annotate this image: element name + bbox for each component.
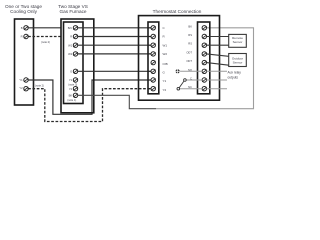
svg-text:Cooling Only: Cooling Only <box>10 9 37 14</box>
wire furnace W1 to thermostat W1 <box>78 44 151 46</box>
svg-text:O/B: O/B <box>163 62 168 66</box>
svg-text:R: R <box>21 35 23 39</box>
svg-text:Thermostat Connection: Thermostat Connection <box>153 9 202 14</box>
terminal RS upper (thermostat) <box>188 33 206 39</box>
terminal G (thermostat) <box>148 69 166 74</box>
terminal Y1 (cooling) <box>19 78 28 82</box>
svg-text:W1: W1 <box>163 43 168 47</box>
terminal ODT lower (thermostat) <box>186 59 206 65</box>
svg-text:ODT: ODT <box>186 59 192 63</box>
terminal Y1 (furnace) <box>69 78 78 82</box>
wire cooling R to furnace box (dashed, note 2) <box>28 36 61 38</box>
terminal BK (thermostat) <box>188 24 206 30</box>
svg-text:Sensor: Sensor <box>233 40 243 44</box>
wire furnace G to thermostat G <box>78 70 151 72</box>
terminal W1 (thermostat) <box>148 43 167 47</box>
svg-text:Gas Furnace: Gas Furnace <box>59 9 86 14</box>
terminal B/C (furnace) <box>68 26 78 30</box>
svg-text:Sensor: Sensor <box>233 61 243 65</box>
terminal NO (thermostat) <box>188 68 207 74</box>
thermostat outer box <box>139 16 220 101</box>
svg-text:Y1: Y1 <box>69 78 73 82</box>
terminal Y2 (furnace) <box>69 87 78 91</box>
svg-text:B: B <box>21 26 23 30</box>
cooling unit box <box>15 19 34 105</box>
terminal ODT upper (thermostat) <box>186 50 206 56</box>
wire furnace W2 to thermostat W2 <box>78 53 151 55</box>
svg-text:outputs: outputs <box>228 76 239 80</box>
furnace outer box <box>61 19 94 113</box>
terminal C aux (thermostat) <box>190 77 207 83</box>
svg-text:ODT: ODT <box>186 50 192 54</box>
svg-text:Y2: Y2 <box>19 86 23 90</box>
relay switch: C contact circle <box>184 79 203 82</box>
splice node on NO wire <box>175 69 202 74</box>
svg-text:W2: W2 <box>68 52 73 56</box>
svg-text:Y1: Y1 <box>19 78 23 82</box>
terminal B (cooling) <box>21 26 29 30</box>
svg-text:Y2: Y2 <box>163 88 167 92</box>
svg-text:(note 2): (note 2) <box>41 40 50 44</box>
relay switch arm <box>179 81 184 88</box>
thermostat left terminal strip <box>148 22 159 94</box>
wire C aux output <box>206 79 227 81</box>
svg-text:W2: W2 <box>163 52 168 56</box>
svg-text:BK: BK <box>188 24 192 28</box>
terminal R (furnace) <box>70 34 78 38</box>
wire furnace B/C to thermostat C <box>78 27 151 29</box>
svg-text:RS: RS <box>188 42 192 46</box>
remote sensor box <box>229 34 247 47</box>
svg-text:G: G <box>70 69 72 73</box>
terminal R (cooling) <box>21 34 29 38</box>
terminal R (thermostat) <box>148 34 166 38</box>
terminal C (thermostat) <box>148 26 166 30</box>
wire ODT lower to outdoor sensor <box>207 63 229 66</box>
relay switch: NC contact circle <box>177 87 202 90</box>
wire furnace BK to thermostat BK (routed around bottom) <box>78 95 156 108</box>
svg-text:Y1: Y1 <box>163 79 167 83</box>
terminal O/B (thermostat) <box>151 60 168 65</box>
svg-text:RS: RS <box>188 33 192 37</box>
terminal NC (thermostat) <box>188 85 207 91</box>
terminal Y1 (thermostat) <box>148 78 167 83</box>
svg-text:Y2: Y2 <box>69 87 73 91</box>
wire RS upper to remote sensor <box>206 36 228 38</box>
wire cooling Y2 to thermostat Y2 (dashed, routed along bottom) <box>28 89 151 122</box>
svg-text:Aux relay: Aux relay <box>228 71 242 75</box>
heading: Two Stage VS Gas Furnace <box>58 4 88 14</box>
svg-text:(note 2): (note 2) <box>35 83 44 87</box>
thermostat right terminal strip <box>198 22 210 94</box>
svg-text:(note 1): (note 1) <box>67 98 76 102</box>
wire RS lower to remote sensor <box>206 44 228 46</box>
svg-text:W1: W1 <box>68 43 73 47</box>
heading: One or Two stage Cooling Only <box>5 4 42 14</box>
terminal Y2 (cooling) <box>19 86 28 91</box>
wire cooling B to furnace box <box>28 27 61 29</box>
terminal W2 (thermostat) <box>148 52 167 56</box>
label aux relay outputs <box>228 71 242 80</box>
wire NC aux output <box>206 88 227 90</box>
svg-text:Outdoor: Outdoor <box>232 56 243 60</box>
wire cooling Y1 to thermostat Y1 (routed under furnace) <box>28 80 151 114</box>
wire furnace R to thermostat R <box>78 36 151 38</box>
terminal G (furnace) <box>70 69 78 73</box>
svg-text:BK: BK <box>69 93 73 97</box>
wire ODT upper to outdoor sensor <box>207 54 229 56</box>
terminal RS lower (thermostat) <box>188 42 206 48</box>
terminal Y2 (thermostat) <box>148 87 167 92</box>
svg-text:R: R <box>70 35 72 39</box>
svg-text:(note 3): (note 3) <box>68 83 77 87</box>
terminal W1 (furnace) <box>68 43 78 47</box>
furnace terminal strip <box>64 22 84 104</box>
terminal BK (furnace) <box>69 93 78 97</box>
terminal W2 (furnace) <box>68 52 78 56</box>
outdoor sensor box <box>229 54 247 67</box>
wire NO aux output <box>206 70 227 72</box>
svg-text:B/C: B/C <box>68 26 73 30</box>
